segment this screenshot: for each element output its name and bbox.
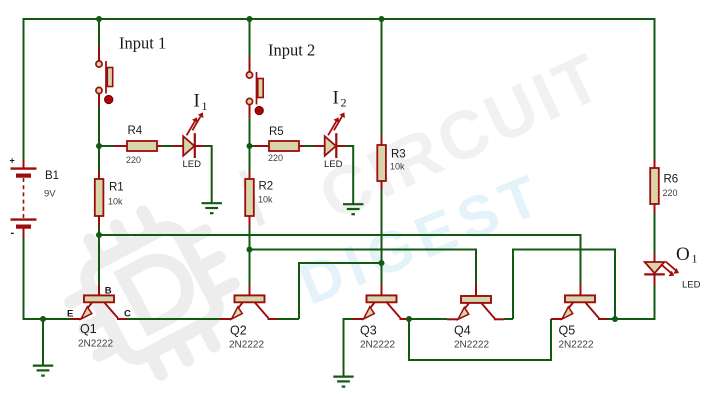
svg-text:10k: 10k: [258, 195, 273, 205]
svg-text:Q3: Q3: [360, 324, 377, 338]
node junction top rail / input1: [96, 16, 102, 22]
wire feedback line2 to Q4 base: [250, 250, 477, 297]
wire R3 to Q3 base: [381, 190, 383, 296]
wire left battery branch: [24, 18, 71, 320]
svg-text:220: 220: [663, 188, 678, 198]
svg-text:220: 220: [268, 153, 283, 163]
wire Q3 emitter to ground: [344, 319, 353, 376]
svg-text:R5: R5: [269, 126, 284, 138]
node junction battery-ground: [40, 316, 46, 322]
svg-text:2: 2: [341, 96, 347, 110]
svg-text:LED: LED: [324, 159, 343, 170]
svg-text:Q2: Q2: [230, 324, 247, 338]
svg-text:R3: R3: [391, 149, 406, 161]
node junction line3/Q3 base: [379, 260, 385, 266]
wire feedback line1 to Q5 base: [99, 235, 581, 296]
label O1: [676, 244, 698, 266]
ground Q3: [333, 377, 353, 387]
svg-text:R2: R2: [259, 181, 274, 193]
svg-text:I: I: [194, 91, 200, 112]
svg-text:2N2222: 2N2222: [78, 339, 113, 350]
transistor Q2: [220, 295, 278, 350]
transistor Q4: [447, 296, 504, 351]
wire Q5 collector stub: [608, 318, 616, 320]
wire Q2 collector to Q3 base line3: [299, 263, 382, 319]
wire switch2 to node: [249, 105, 251, 148]
wire input2 drop: [249, 19, 251, 72]
LED I2: [314, 112, 345, 170]
label I2: [333, 88, 347, 110]
node junction R2/Q2 base/line2: [247, 247, 253, 253]
svg-text:Q5: Q5: [559, 324, 576, 338]
wire Q4 collector stub: [504, 318, 513, 320]
resistor R2: [245, 146, 273, 250]
transistor Q3: [353, 295, 410, 350]
svg-text:2N2222: 2N2222: [360, 340, 395, 351]
resistor R5: [250, 126, 315, 163]
wire Q1 collector to Q2 emitter: [127, 318, 220, 320]
ground battery: [33, 319, 53, 376]
svg-text:O: O: [676, 244, 690, 265]
switch Input 2: [246, 72, 263, 115]
svg-text:R1: R1: [109, 182, 124, 194]
svg-text:-: -: [11, 227, 15, 239]
svg-text:10k: 10k: [108, 197, 123, 207]
svg-text:1: 1: [692, 252, 698, 266]
wire input1 drop: [98, 19, 100, 61]
svg-text:1: 1: [202, 99, 208, 113]
resistor R6: [650, 18, 678, 213]
svg-text:B1: B1: [45, 170, 59, 182]
ground LED I2: [343, 204, 363, 214]
svg-text:Input 1: Input 1: [119, 34, 166, 53]
svg-text:R6: R6: [664, 174, 679, 186]
node junction Q3 collector: [406, 316, 412, 322]
resistor R1: [95, 146, 124, 235]
wire switch1 to node: [98, 94, 100, 148]
wire Q5 collector to LED O1: [615, 318, 656, 320]
wire Q3 collector to Q5 emitter (lower route): [409, 319, 551, 360]
svg-text:R4: R4: [128, 125, 143, 137]
wire LED I2 to ground: [345, 146, 353, 204]
wire R1 node to Q1 base: [98, 235, 100, 296]
node junction R1/Q1 base/line1: [96, 232, 102, 238]
transistor Q5: [551, 295, 608, 350]
resistor R3: [377, 19, 405, 190]
svg-text:E: E: [67, 309, 73, 320]
svg-text:C: C: [124, 309, 131, 320]
svg-text:2N2222: 2N2222: [229, 340, 264, 351]
resistor R4: [99, 125, 173, 165]
node junction input2/R5/R2: [247, 143, 253, 149]
svg-text:LED: LED: [682, 280, 701, 291]
battery B1: [10, 156, 60, 240]
wire LED I1 to ground: [205, 146, 212, 203]
svg-text:10k: 10k: [390, 162, 405, 172]
ground LED I1: [202, 203, 222, 213]
node junction top rail / R3: [379, 16, 385, 22]
label I1: [194, 91, 208, 114]
wire Q2 collector stub: [278, 318, 300, 320]
wire Q3 collector to Q4 emitter: [409, 318, 447, 320]
svg-text:LED: LED: [183, 159, 202, 170]
wire R6 to LED O1: [654, 213, 656, 262]
node junction top rail / input2: [247, 16, 253, 22]
svg-text:+: +: [10, 156, 15, 166]
wire LED O1 to bottom: [654, 286, 656, 320]
svg-text:2N2222: 2N2222: [454, 340, 489, 351]
svg-text:Q4: Q4: [454, 324, 471, 338]
wire Q4 collector riser to Q5 collector: [513, 250, 615, 320]
svg-text:Q1: Q1: [80, 322, 97, 336]
svg-text:B: B: [105, 286, 112, 297]
node junction input1/R4/R1: [96, 143, 102, 149]
node junction Q5 collector: [612, 316, 618, 322]
transistor Q1: [67, 286, 131, 350]
svg-text:I: I: [333, 88, 339, 109]
svg-text:220: 220: [126, 155, 141, 165]
svg-text:9V: 9V: [44, 189, 56, 200]
svg-text:2N2222: 2N2222: [559, 340, 594, 351]
svg-text:Input 2: Input 2: [268, 41, 315, 60]
LED O1: [644, 262, 700, 291]
LED I1: [173, 112, 205, 170]
wire top power rail: [24, 18, 655, 20]
wire R2 node to Q2 base: [249, 250, 251, 296]
switch Input 1: [96, 61, 113, 104]
